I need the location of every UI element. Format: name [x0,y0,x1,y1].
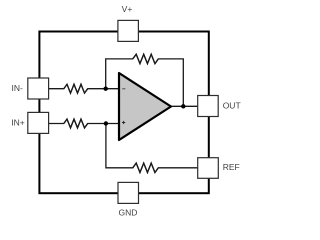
svg-text:V+: V+ [122,4,133,14]
svg-text:GND: GND [118,208,137,218]
IC package outline [39,32,208,194]
wire feedback loop [106,54,184,106]
op-amp inverting input mark [122,88,125,90]
pin IN- [28,78,49,99]
op-amp U1 [119,73,171,140]
resistor R4 (REF) [133,163,159,172]
junction dot non-inverting node [104,121,108,125]
svg-text:IN+: IN+ [11,117,24,127]
wire IN- to inverting input [49,84,119,93]
pin GND [118,182,139,203]
svg-text:IN-: IN- [12,83,24,93]
resistor R1 (IN- series) [64,84,88,93]
wire IN+ to non-inverting input [49,119,119,128]
svg-text:OUT: OUT [223,101,241,111]
pin REF [198,158,219,179]
pin OUT [198,96,219,117]
wire non-inverting node to REF resistor [106,124,198,173]
svg-text:REF: REF [223,162,240,172]
pin V+ [118,20,138,41]
junction dot inverting node [104,87,108,91]
junction dot output node [181,104,185,108]
wire op-amp output to OUT pin [171,105,198,107]
pin IN+ [28,112,49,133]
resistor R2 (feedback) [133,54,159,63]
op-amp non-inverting input mark [122,121,125,124]
resistor R3 (IN+ series) [64,119,88,128]
